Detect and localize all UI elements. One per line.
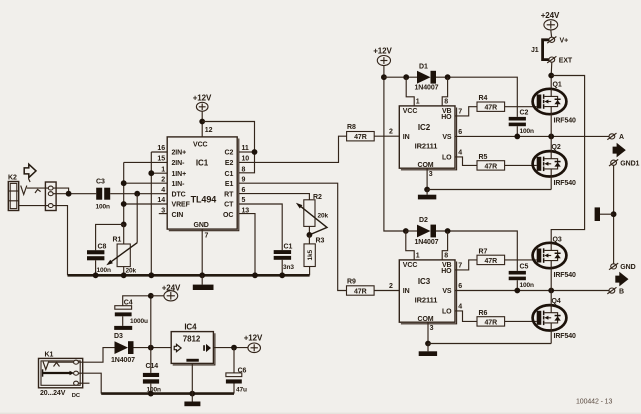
node R1 rail junction: [121, 272, 127, 278]
svg-text:47R: 47R: [485, 258, 498, 265]
svg-text:D3: D3: [114, 333, 123, 340]
wire K1 switch stub: [79, 382, 90, 384]
svg-text:IRF540: IRF540: [554, 272, 577, 279]
svg-text:IRF540: IRF540: [554, 118, 577, 125]
terminal A: [607, 133, 624, 141]
node DTC junction: [134, 191, 140, 197]
svg-text:1IN-: 1IN-: [172, 181, 186, 188]
svg-text:2: 2: [161, 176, 165, 183]
IC3 IR2111: [399, 260, 456, 324]
wire R5 to gate Q2: [505, 164, 537, 166]
svg-text:47R: 47R: [485, 319, 498, 326]
wire feedback bus: [123, 162, 125, 224]
terminal B: [607, 287, 624, 295]
svg-text:47u: 47u: [236, 387, 247, 394]
svg-text:GND: GND: [194, 222, 209, 229]
svg-text:11: 11: [242, 145, 249, 152]
wire E1 to R9: [239, 183, 347, 290]
node COM junction IC3: [425, 341, 431, 347]
svg-text:100442 - 13: 100442 - 13: [576, 399, 612, 406]
svg-text:B: B: [619, 288, 624, 295]
diode D2: [415, 217, 439, 246]
wire VCC pin1 IC3: [406, 231, 414, 260]
potentiometer R2: [296, 194, 329, 235]
IC4 7812: [171, 323, 215, 365]
svg-text:IRF540: IRF540: [554, 180, 577, 187]
node chassis junction: [611, 211, 617, 217]
jack switch symbol: [21, 179, 41, 195]
wire RT to R2: [239, 194, 310, 200]
svg-text:C14: C14: [146, 363, 159, 370]
wire R9 to IN IC3: [374, 290, 399, 292]
capacitor C6: [226, 348, 247, 394]
svg-text:GND: GND: [620, 264, 635, 271]
supply +24V top: [541, 11, 560, 30]
svg-text:IN: IN: [403, 134, 410, 141]
svg-text:IRF540: IRF540: [554, 333, 577, 340]
svg-text:Q4: Q4: [552, 298, 561, 305]
svg-text:20k: 20k: [126, 267, 137, 274]
svg-text:R5: R5: [479, 154, 488, 161]
svg-text:2IN+: 2IN+: [172, 150, 187, 157]
wire GND pin7 to rail: [201, 229, 203, 275]
node VB branch IC3: [445, 228, 451, 234]
svg-text:C1: C1: [225, 171, 234, 178]
node D1 anode junction: [381, 74, 387, 80]
resistor R9: [347, 279, 375, 296]
wire K1 minus to rail: [79, 373, 102, 393]
svg-text:1: 1: [416, 98, 420, 105]
svg-text:R8: R8: [347, 124, 356, 131]
input arrow: [24, 164, 36, 177]
node VCC branch IC2: [403, 74, 409, 80]
svg-text:+12V: +12V: [244, 333, 263, 342]
svg-text:IR2111: IR2111: [415, 296, 438, 305]
svg-text:VCC: VCC: [403, 262, 418, 269]
svg-text:16: 16: [157, 145, 165, 152]
ground C4: [114, 326, 132, 330]
svg-text:7812: 7812: [183, 334, 201, 343]
wire pin16: [151, 151, 167, 153]
svg-text:EXT: EXT: [559, 58, 573, 65]
jumper J1: [531, 40, 549, 60]
wire R6 to gate Q4: [505, 320, 537, 322]
supply +12V over IC1: [193, 94, 212, 112]
wire CT to C1: [239, 204, 282, 250]
resistor R4: [477, 95, 505, 112]
svg-text:E1: E1: [225, 181, 234, 188]
wire VS line A: [455, 135, 609, 137]
pin numbers IC1 left: [157, 145, 165, 215]
terminal V+: [547, 37, 568, 45]
svg-text:IC4: IC4: [184, 323, 197, 332]
svg-text:1: 1: [416, 252, 420, 259]
supply +12V bridge: [373, 47, 392, 66]
psu ground rail: [101, 392, 234, 395]
capacitor C1: [274, 243, 295, 275]
svg-text:100n: 100n: [97, 267, 112, 274]
ground psu: [184, 402, 200, 407]
svg-text:15: 15: [157, 156, 165, 163]
wire sleeve to ground rail: [53, 206, 67, 276]
resistor R3: [304, 235, 324, 275]
svg-text:K1: K1: [45, 351, 54, 358]
wire D3 cathode to IC4: [134, 347, 172, 349]
wire to ground bar: [600, 213, 614, 215]
wire COM pin3 IC2: [426, 168, 428, 189]
wire R7 to gate Q3: [505, 259, 537, 261]
node input junction: [66, 191, 72, 197]
svg-text:20...24V: 20...24V: [40, 390, 66, 397]
output arrow A: [613, 143, 626, 158]
wire +24V branch: [123, 296, 151, 348]
svg-text:1k5: 1k5: [307, 249, 314, 260]
svg-text:C8: C8: [98, 243, 107, 250]
svg-text:7: 7: [205, 233, 209, 240]
svg-text:7: 7: [458, 109, 462, 116]
wire Q1 source to VS: [550, 114, 552, 136]
svg-text:COM: COM: [417, 316, 433, 323]
capacitor C2: [509, 110, 534, 137]
svg-text:47R: 47R: [485, 105, 498, 112]
wire pin1: [151, 172, 167, 174]
capacitor C8: [87, 243, 111, 275]
node EXT junction: [548, 73, 554, 79]
node bus bottom junction: [121, 222, 127, 228]
wire middle contact to C3: [53, 193, 96, 195]
wire LO to R6: [455, 311, 477, 322]
node COM junction IC2: [424, 187, 430, 193]
wire VB pin8 IC2: [442, 77, 447, 106]
svg-text:C5: C5: [520, 264, 529, 271]
wire +12V to C2 C1 pins: [202, 122, 254, 173]
svg-text:R6: R6: [479, 310, 488, 317]
svg-text:1IN+: 1IN+: [172, 171, 187, 178]
IC1 TL494: [167, 137, 239, 231]
output arrow B: [615, 272, 628, 287]
wire EXT to Q3 drain rail: [551, 76, 584, 244]
capacitor C3: [96, 179, 111, 211]
svg-text:VREF: VREF: [172, 202, 191, 209]
svg-text:R3: R3: [316, 238, 325, 245]
wire K2 tip to top contact: [27, 187, 49, 189]
wire pin14 VREF: [124, 203, 168, 205]
wire +12V to VCC pin12: [201, 111, 203, 137]
supply +12V psu: [244, 333, 263, 352]
node gnd rail junction: [199, 272, 205, 278]
svg-text:3: 3: [429, 171, 433, 178]
svg-text:CIN: CIN: [172, 212, 184, 219]
ground rail: [68, 274, 310, 277]
resistor R6: [477, 310, 505, 327]
wire GND1 to GND: [613, 165, 615, 264]
svg-text:HO: HO: [441, 114, 452, 121]
svg-text:Q2: Q2: [552, 144, 561, 151]
svg-text:Q1: Q1: [553, 82, 562, 89]
svg-text:3: 3: [430, 325, 434, 332]
svg-text:C3: C3: [96, 179, 105, 186]
ground IC1: [193, 285, 214, 290]
svg-text:E2: E2: [225, 160, 234, 167]
svg-text:12: 12: [205, 127, 213, 134]
wire pin11: [239, 151, 255, 153]
pin numbers IC1 right: [242, 145, 250, 215]
svg-text:1N4007: 1N4007: [415, 239, 439, 246]
wire D1 cathode to C2 top: [436, 77, 517, 117]
wire IC4 gnd: [191, 363, 193, 401]
node +12V out junction: [231, 345, 237, 351]
svg-text:R7: R7: [479, 248, 488, 255]
wire +24V to V+: [550, 30, 553, 37]
svg-text:9: 9: [242, 176, 246, 183]
transistor Q2: [533, 136, 576, 189]
svg-text:+12V: +12V: [373, 47, 392, 56]
svg-text:R4: R4: [479, 95, 488, 102]
svg-text:K2: K2: [8, 175, 17, 182]
resistor R8: [347, 124, 375, 141]
svg-text:C2: C2: [225, 150, 234, 157]
svg-text:GND1: GND1: [620, 160, 639, 167]
svg-text:IR2111: IR2111: [415, 142, 438, 151]
svg-text:CT: CT: [224, 202, 234, 209]
svg-text:100n: 100n: [96, 204, 111, 211]
node C1 rail junction: [279, 272, 285, 278]
svg-text:3n3: 3n3: [283, 264, 294, 271]
svg-text:2: 2: [389, 283, 393, 290]
svg-text:4: 4: [458, 150, 462, 157]
wire C3 to DTC pin 4: [110, 193, 167, 195]
svg-text:4: 4: [458, 304, 462, 311]
svg-text:1000u: 1000u: [130, 318, 148, 325]
K2 contact box: [45, 182, 56, 211]
node C2 VS junction: [514, 134, 520, 140]
wire OC to rail: [239, 214, 255, 276]
wire D1 anode line: [384, 76, 417, 78]
svg-text:10: 10: [242, 156, 250, 163]
wire K1 plus to D3: [79, 348, 115, 363]
svg-text:1: 1: [161, 166, 165, 173]
svg-text:14: 14: [157, 197, 165, 204]
svg-text:IC1: IC1: [196, 159, 209, 168]
svg-text:8: 8: [444, 98, 448, 105]
svg-text:VS: VS: [442, 134, 452, 141]
node R2 R3 junction: [307, 232, 313, 238]
svg-text:DTC: DTC: [172, 191, 186, 198]
svg-text:47R: 47R: [354, 289, 367, 296]
wire E2 to R8: [239, 136, 347, 162]
svg-text:VS: VS: [442, 288, 452, 295]
wire top contact to junction: [53, 188, 69, 194]
svg-text:RT: RT: [224, 191, 234, 198]
svg-text:LO: LO: [442, 155, 452, 162]
node C5 VS junction: [514, 288, 520, 294]
wire R4 to gate Q1: [505, 106, 537, 108]
svg-text:100n: 100n: [520, 128, 535, 135]
ground IC3: [419, 344, 437, 357]
svg-text:HO: HO: [441, 268, 452, 275]
transistor Q3: [533, 237, 576, 291]
svg-text:1N4007: 1N4007: [111, 357, 135, 364]
ground IC2: [418, 190, 436, 200]
wire pin2: [124, 182, 168, 184]
wire D2 anode line: [406, 230, 417, 232]
node pin1 junction: [148, 170, 154, 176]
svg-text:+12V: +12V: [193, 94, 212, 103]
IC2 IR2111: [399, 106, 456, 170]
supply +24V psu: [151, 283, 181, 301]
wire VS line B: [455, 290, 609, 292]
terminal GND1: [609, 159, 640, 167]
wire bus to C8: [96, 224, 124, 250]
svg-text:6: 6: [458, 129, 462, 136]
node Q3 Q4 junction: [548, 288, 554, 294]
svg-text:A: A: [619, 134, 624, 141]
svg-text:VCC: VCC: [403, 108, 418, 115]
wire HO to R4: [455, 107, 477, 116]
diode D1: [415, 63, 439, 91]
node C14 rail junction: [148, 391, 154, 397]
svg-text:D2: D2: [419, 217, 428, 224]
svg-text:IC2: IC2: [418, 123, 431, 132]
wire EXT to Q1 drain: [550, 62, 553, 89]
diode D3: [111, 333, 135, 364]
svg-text:IN: IN: [403, 288, 410, 295]
svg-text:6: 6: [242, 187, 246, 194]
wire CIN stub: [159, 213, 167, 215]
node IC4 gnd junction: [189, 391, 195, 397]
capacitor C4: [115, 299, 148, 326]
svg-text:47R: 47R: [485, 163, 498, 170]
svg-text:V+: V+: [560, 38, 569, 45]
node VB branch IC2: [445, 74, 451, 80]
svg-text:2: 2: [389, 129, 393, 136]
node pin11 junction: [252, 149, 258, 155]
svg-text:20k: 20k: [318, 213, 329, 220]
node D3 junction: [148, 345, 154, 351]
svg-text:TL494: TL494: [191, 194, 217, 204]
node pin2 junction: [121, 180, 127, 186]
svg-text:IC3: IC3: [418, 277, 431, 286]
node OC rail junction: [252, 272, 258, 278]
terminal GND: [609, 263, 636, 271]
connector K2: [8, 175, 19, 211]
wire COM to Q2 source: [427, 189, 551, 191]
wire +12V rail down to D2: [384, 65, 406, 231]
svg-text:2IN-: 2IN-: [172, 160, 186, 167]
transistor Q1: [533, 82, 576, 125]
node C8 rail junction: [93, 272, 99, 278]
svg-text:COM: COM: [417, 162, 433, 169]
capacitor C14: [143, 348, 161, 394]
svg-text:C1: C1: [284, 243, 293, 250]
wire pin15: [124, 161, 168, 163]
connector K1: [39, 351, 83, 398]
svg-text:5: 5: [242, 197, 246, 204]
svg-text:7: 7: [458, 263, 462, 270]
svg-text:47R: 47R: [354, 134, 367, 141]
wire IC4 out to +12V: [213, 347, 248, 349]
wire COM pin3 IC3: [427, 322, 429, 343]
resistor R5: [477, 154, 505, 171]
resistor R7: [477, 248, 505, 265]
terminal EXT: [547, 56, 573, 64]
node +24V junction: [148, 293, 154, 299]
wire K2 sleeve: [19, 205, 49, 207]
svg-text:R1: R1: [113, 237, 122, 244]
svg-text:C2: C2: [520, 110, 529, 117]
node Q1 Q2 junction: [548, 134, 554, 140]
node +12V junction: [199, 119, 205, 125]
svg-text:8: 8: [444, 252, 448, 259]
svg-text:6: 6: [458, 283, 462, 290]
svg-text:4: 4: [161, 187, 165, 194]
capacitor C5: [509, 264, 534, 291]
potentiometer R1: [106, 224, 137, 275]
transistor Q4: [533, 291, 576, 344]
svg-text:VCC: VCC: [193, 142, 208, 149]
wire R8 to IN IC2: [374, 135, 399, 137]
svg-text:D1: D1: [419, 63, 428, 70]
wire 2IN+ bus: [150, 152, 152, 275]
svg-text:OC: OC: [223, 212, 233, 219]
svg-text:R9: R9: [347, 279, 356, 286]
wire COM to Q4 source: [428, 343, 551, 345]
wire VCC pin1 IC2: [406, 77, 414, 106]
svg-text:LO: LO: [442, 309, 452, 316]
node D2 anode junction: [403, 228, 409, 234]
wire VB pin8 IC3: [442, 231, 447, 260]
svg-text:DC: DC: [72, 393, 81, 399]
svg-text:1N4007: 1N4007: [415, 84, 439, 91]
node bus rail junction: [148, 272, 154, 278]
svg-text:+24V: +24V: [541, 11, 560, 20]
ground right: [595, 207, 600, 221]
node VREF junction: [121, 201, 127, 207]
svg-text:J1: J1: [531, 47, 539, 54]
wire LO to R5: [455, 157, 477, 166]
wire HO to R7: [455, 260, 477, 270]
wire R1 wiper drop: [136, 194, 138, 243]
wire D2 cathode to C5 top: [436, 231, 517, 271]
svg-text:100n: 100n: [520, 282, 535, 289]
